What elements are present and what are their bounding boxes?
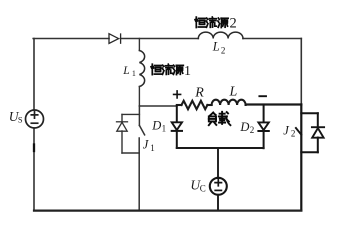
switch J1: upper wire [138, 106, 140, 125]
svg-text:2: 2 [291, 129, 296, 139]
wire: dark mark on left wire (scan artifact) [33, 145, 35, 152]
label + (load polarity) [174, 91, 181, 98]
switch J2 blade [296, 128, 301, 135]
wire: J2 parallel branch top stub [301, 112, 318, 114]
switch J1: lower wire to bottom rail [138, 138, 140, 210]
wire: node line (left segment to D1) [139, 105, 176, 107]
inductor L (load) [212, 100, 246, 105]
svg-text:L: L [122, 65, 129, 77]
label 负载 (load) [209, 112, 231, 125]
wire: load bottom (D1 to D2) [177, 147, 264, 149]
svg-text:J: J [143, 138, 150, 152]
wire: J1 parallel branch bottom stub [122, 152, 139, 154]
label - (load polarity) [259, 95, 266, 97]
svg-text:1: 1 [184, 64, 191, 79]
wire: Uc branch lower [217, 195, 219, 211]
svg-text:2: 2 [230, 16, 237, 32]
label 恒流源2 (constant current source 2) [195, 17, 228, 27]
svg-text:2: 2 [221, 46, 226, 56]
svg-text:2: 2 [250, 125, 255, 135]
switch J1 blade [139, 125, 144, 134]
voltage source US [26, 110, 44, 128]
resistor R [182, 101, 208, 109]
svg-text:R: R [194, 85, 204, 100]
wire: right vertical lower (bold, J2 main) [300, 105, 302, 211]
diode (J2 freewheel, pointing up) [312, 127, 324, 138]
wire: J2 parallel branch right vertical [317, 113, 319, 152]
diode D2 [258, 105, 268, 149]
wire: J1 parallel branch top stub [122, 113, 139, 115]
svg-text:1: 1 [132, 69, 136, 78]
inductor L2 [198, 32, 243, 38]
wire: L to right vertical [246, 103, 302, 105]
label 恒流源1 (constant current source 1) [151, 64, 183, 74]
wire: L1 bottom to node [138, 87, 140, 107]
diode (J1 freewheel, pointing up) [117, 122, 128, 131]
diode VD (top) [109, 34, 121, 44]
wire: J2 parallel branch bottom stub [301, 151, 318, 153]
svg-text:D: D [151, 118, 161, 132]
L1 branch: wire from top to coil [138, 39, 140, 51]
voltage source UC [210, 178, 227, 195]
svg-text:C: C [200, 183, 206, 193]
svg-text:1: 1 [162, 124, 167, 134]
diode D1 [172, 106, 182, 148]
wire: R to L [207, 104, 211, 106]
wire: J1 parallel branch left vertical [121, 114, 123, 153]
svg-text:D: D [239, 120, 249, 134]
wire: node to resistor [177, 104, 182, 106]
wire: right vertical upper (thin) [300, 39, 302, 105]
wire: top horizontal [33, 38, 301, 40]
svg-text:L: L [212, 40, 220, 54]
inductor L1 [139, 51, 144, 87]
svg-text:1: 1 [150, 143, 155, 153]
svg-text:L: L [229, 85, 238, 100]
svg-text:J: J [283, 123, 290, 137]
wire: bottom rail [34, 210, 301, 212]
wire: Uc branch upper [217, 148, 219, 178]
svg-text:S: S [18, 115, 23, 125]
wire: left vertical (Us branch) [33, 39, 35, 211]
